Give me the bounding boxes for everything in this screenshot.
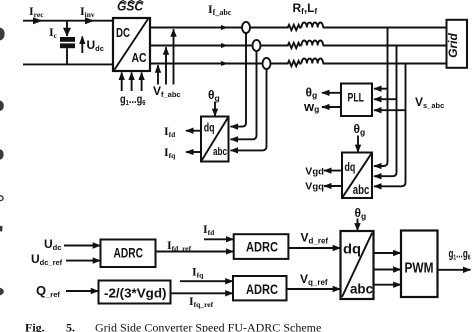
svg-text:θg: θg [354, 122, 366, 137]
controller ADRC2 (d current) [234, 234, 289, 259]
svg-text:wg: wg [303, 99, 319, 114]
svg-text:Vf_abc: Vf_abc [153, 84, 181, 99]
wire U_dc_ref into ADRC1 [66, 260, 100, 262]
wire: phase c [150, 63, 286, 65]
wire I_fd_ref ADRC1 to ADRC2 [156, 251, 234, 253]
svg-text:PWM: PWM [405, 260, 434, 277]
current sensor phase c [263, 58, 271, 69]
arrow theta_g into dq2 [357, 136, 359, 153]
wire g1..g6 output [438, 269, 471, 271]
capacitor C dc-link [60, 21, 75, 65]
resistor Rf phase c [286, 61, 302, 66]
transform block dq/abc U2 [201, 117, 229, 162]
arrow Wg from PLL [322, 106, 341, 108]
svg-text:Irec: Irec [29, 4, 44, 19]
svg-text:abc: abc [353, 183, 370, 197]
svg-text:Vs_abc: Vs_abc [415, 95, 444, 110]
svg-text:Ifq: Ifq [192, 265, 204, 280]
wires dq3 to PWM [374, 253, 401, 285]
svg-text:g1...g6: g1...g6 [449, 249, 471, 262]
svg-text:ADRC: ADRC [246, 282, 278, 297]
svg-text:Ifq_ref: Ifq_ref [189, 294, 214, 309]
svg-text:θg: θg [208, 88, 220, 103]
svg-text:Fig.5.Grid Side Converter Spee: Fig.5.Grid Side Converter Speed FU-ADRC … [25, 321, 321, 332]
wire: DC bus positive (top) [23, 20, 113, 22]
page edge text fragments [0, 28, 5, 296]
svg-text:Grid: Grid [446, 32, 460, 57]
voltage sense arrows V_f_abc [158, 29, 174, 84]
svg-text:ADRC: ADRC [246, 240, 278, 255]
svg-text:Ifd_ref: Ifd_ref [167, 238, 192, 253]
wire I_fq into ADRC3 [180, 280, 233, 282]
arrow I_fq output [186, 151, 201, 153]
svg-text:abc: abc [213, 146, 227, 158]
controller ADRC3 (q current) [233, 276, 287, 300]
svg-text:Vgq: Vgq [305, 181, 324, 193]
branch phase b tap to PLL [374, 98, 397, 100]
svg-text:dq: dq [343, 241, 361, 257]
svg-text:Udc: Udc [44, 237, 61, 252]
svg-text:PLL: PLL [348, 91, 365, 105]
arrow theta_g into dq1 [214, 102, 216, 117]
controller ADRC1 (dc voltage) [101, 240, 156, 268]
current arrow I_rec on DC bus [33, 17, 43, 24]
wire: phase b [150, 45, 286, 47]
gain block -2/(3*Vgd) [99, 281, 171, 304]
wire U_dc into ADRC1 [64, 245, 100, 247]
wire: phase a [150, 27, 286, 29]
wire Q_ref into gain block [66, 290, 98, 292]
wire: DC bus negative (bottom) [23, 63, 113, 65]
svg-text:-2/(3*Vgd): -2/(3*Vgd) [104, 286, 167, 301]
arrow U_dc (voltage) [81, 37, 83, 54]
wire: phase a to grid [323, 27, 447, 29]
arrow Vgq output [324, 185, 342, 187]
converter GSC (DC/AC) [113, 18, 150, 71]
arrow Vgd output [324, 170, 342, 172]
svg-text:Ifd: Ifd [203, 222, 215, 237]
svg-text:θg: θg [355, 206, 367, 221]
svg-text:Ic: Ic [49, 25, 58, 40]
wire: CT c to dq1 [231, 69, 267, 150]
grid box [446, 20, 467, 68]
svg-text:Vd_ref: Vd_ref [301, 231, 329, 246]
resistor Rf phase b [286, 43, 302, 48]
inductor Lf phase a [302, 23, 324, 28]
svg-text:g1...g6: g1...g6 [120, 92, 146, 107]
PLL block [341, 84, 372, 117]
svg-text:dq: dq [345, 162, 356, 174]
wire I_fd into ADRC2 [204, 238, 233, 240]
wire V_q_ref ADRC3 to dq3 [287, 288, 341, 290]
svg-text:Vq_ref: Vq_ref [300, 272, 328, 287]
tap wire phase a to PLL/dq2 [374, 28, 388, 167]
svg-text:Rf,Lf: Rf,Lf [293, 1, 318, 16]
transform block dq/abc U3 [342, 153, 372, 199]
current sensor phase a [242, 22, 250, 33]
svg-text:Vgd: Vgd [305, 165, 324, 177]
current sensor phase b [253, 40, 261, 51]
gate arrows g1..g6 into GSC [122, 73, 142, 92]
wire V_d_ref ADRC2 to dq3 [288, 247, 340, 249]
svg-text:Iinv: Iinv [80, 4, 95, 19]
branch phase c tap to PLL [374, 109, 406, 111]
svg-text:dq: dq [204, 123, 215, 135]
wire: CT a to dq1 [231, 33, 247, 127]
arrow theta_g into dq3 [357, 219, 359, 231]
svg-text:Ifq: Ifq [164, 145, 176, 160]
tap wire phase c to PLL/dq2 [374, 64, 406, 187]
wire: CT b to dq1 [231, 51, 257, 139]
resistor Rf phase a [286, 25, 302, 30]
inductor Lf phase b [302, 41, 324, 46]
svg-text:Udc: Udc [87, 38, 104, 53]
wire I_fq_ref gain to ADRC3 [171, 292, 233, 294]
arrow theta_g from PLL [322, 92, 341, 94]
current arrow I_inv on DC bus [85, 17, 95, 24]
tap wire phase b to PLL/dq2 [374, 46, 397, 177]
svg-text:Ifd: Ifd [164, 124, 176, 139]
PWM block [401, 231, 438, 298]
svg-text:abc: abc [350, 281, 373, 297]
branch phase a tap to PLL [374, 88, 388, 90]
transform block dq/abc U4 [341, 231, 374, 299]
wire: phase c to grid [323, 63, 447, 65]
svg-text:If_abc: If_abc [208, 2, 232, 17]
inductor Lf phase c [302, 59, 324, 64]
svg-text:DC: DC [116, 25, 130, 40]
svg-text:Q_ref: Q_ref [36, 283, 60, 299]
wire: phase b to grid [323, 45, 447, 47]
arrow I_fd output [186, 130, 201, 132]
svg-text:Udc_ref: Udc_ref [31, 252, 63, 267]
svg-text:ADRC: ADRC [114, 245, 144, 261]
svg-text:AC: AC [132, 50, 147, 65]
